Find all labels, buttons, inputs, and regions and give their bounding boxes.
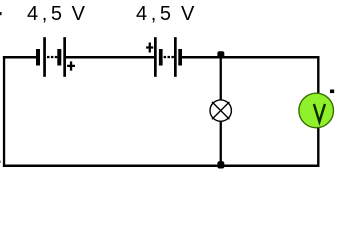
B2 left positive plate (tall thin) — [154, 37, 157, 77]
wire between battery B1 and battery B2 — [66, 56, 154, 59]
svg-text:V: V — [181, 3, 195, 25]
B2 plus sign — [146, 43, 153, 53]
label battery B2 value 4,5 V — [136, 3, 195, 25]
wire top-left horizontal segment — [3, 56, 36, 59]
lamp circle — [210, 100, 231, 121]
B2 cell separator dashes — [164, 56, 174, 58]
B1 right positive plate (tall thin) — [63, 37, 66, 77]
clipped mark top-left edge — [0, 12, 2, 15]
B1 cell separator dashes — [47, 56, 57, 58]
wire bottom horizontal — [3, 165, 320, 168]
B1 plus sign — [67, 61, 75, 70]
junction node top — [217, 51, 224, 58]
voltmeter body — [299, 93, 334, 128]
svg-text:V: V — [72, 3, 86, 25]
battery B2 — [146, 37, 182, 77]
clipped mark bottom-left edge — [0, 161, 1, 163]
lamp L1 — [210, 100, 231, 121]
svg-text:4,5: 4,5 — [136, 3, 175, 25]
B1 left negative plate (short thick) — [36, 49, 40, 66]
voltmeter positive terminal marker — [330, 90, 334, 94]
voltmeter M1 — [299, 90, 334, 128]
junction node bottom — [217, 161, 224, 168]
battery B1 — [36, 37, 75, 77]
B2 right negative plate (short thick) — [178, 49, 182, 66]
voltmeter letter V — [314, 104, 325, 122]
wire lamp top vertical — [220, 58, 222, 100]
B2 right positive plate (tall thin) — [174, 37, 177, 77]
wire right vertical — [317, 56, 319, 167]
B1 right negative plate (short thick) — [57, 49, 61, 66]
wire left vertical — [3, 56, 5, 167]
lamp cross stroke 2 — [212, 102, 229, 119]
B2 left negative plate (short thick) — [159, 49, 163, 66]
label battery B1 value 4,5 V — [27, 3, 86, 25]
B1 left positive plate (tall thin) — [43, 37, 46, 77]
wire battery B2 to top junction and top-right corner — [182, 56, 320, 59]
lamp cross stroke 1 — [212, 102, 229, 119]
wire lamp bottom vertical — [220, 121, 222, 166]
svg-text:4,5: 4,5 — [27, 3, 66, 25]
